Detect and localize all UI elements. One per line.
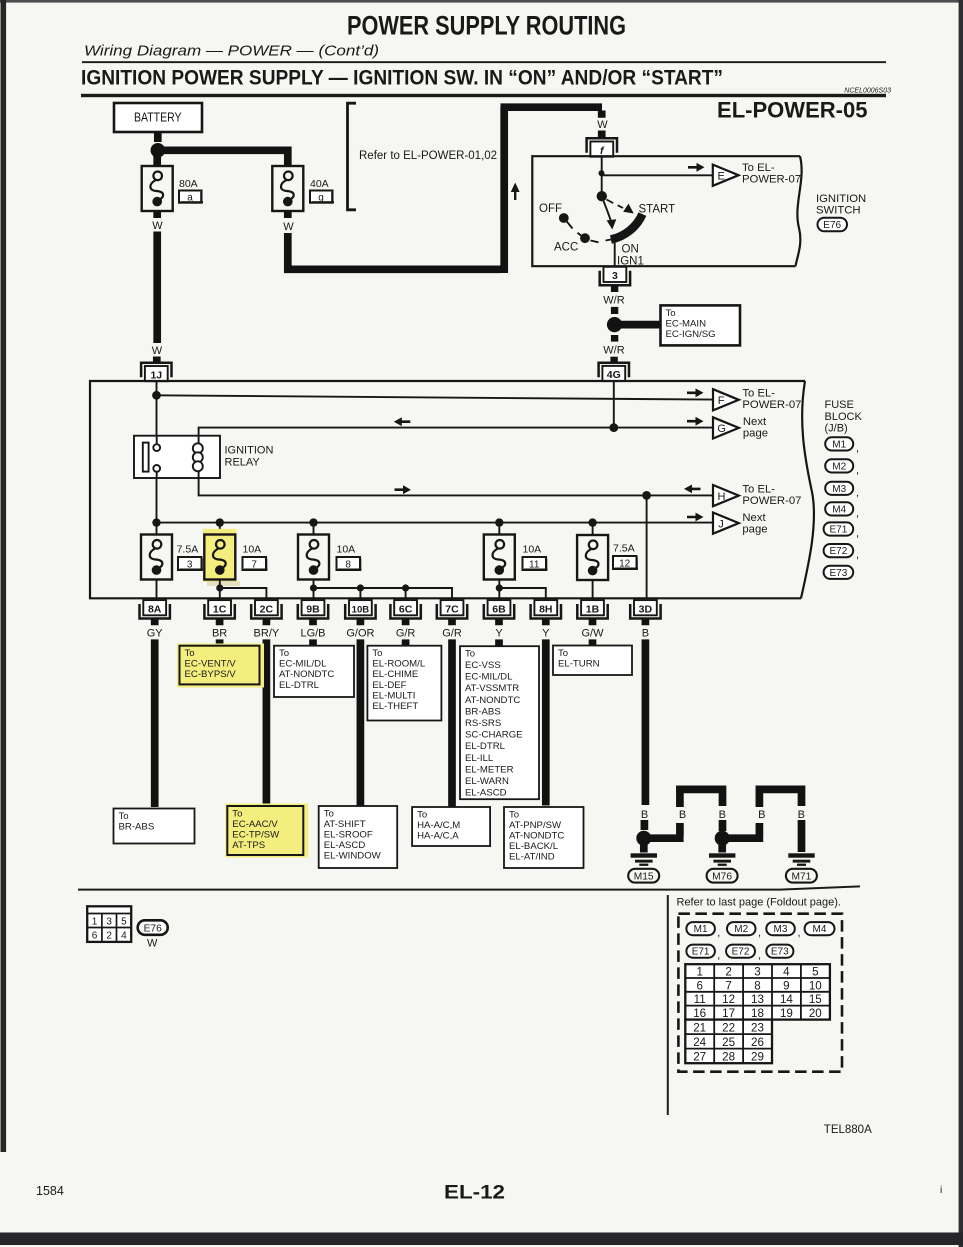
svg-text:page: page bbox=[743, 428, 768, 440]
svg-text:EC-MAIN: EC-MAIN bbox=[666, 318, 707, 329]
svg-text:POWER SUPPLY ROUTING: POWER SUPPLY ROUTING bbox=[347, 11, 626, 41]
wire fuse 3 to 8A bbox=[156, 580, 158, 601]
svg-text:1: 1 bbox=[92, 917, 98, 928]
svg-text:EL-12: EL-12 bbox=[444, 1183, 505, 1204]
connector f bbox=[587, 138, 617, 156]
svg-text:EC-IGN/SG: EC-IGN/SG bbox=[666, 329, 716, 340]
svg-text:7C: 7C bbox=[445, 603, 459, 615]
wire to fuse 7 bbox=[219, 523, 221, 535]
svg-text:80A: 80A bbox=[179, 178, 198, 190]
svg-text:1584: 1584 bbox=[36, 1184, 64, 1198]
wire to fuse 8 bbox=[313, 523, 315, 535]
To EC-MAIN EC-IGN/SG box bbox=[661, 305, 741, 345]
svg-text:G/W: G/W bbox=[582, 628, 605, 640]
svg-text:27: 27 bbox=[693, 1050, 706, 1063]
connector 6C bbox=[390, 600, 420, 618]
svg-text:W: W bbox=[152, 220, 163, 232]
svg-text:17: 17 bbox=[722, 1007, 735, 1020]
node fuse11 branch bbox=[496, 584, 503, 591]
wire G/OR 10B down bbox=[357, 639, 365, 806]
svg-text:AT-PNP/SW: AT-PNP/SW bbox=[509, 820, 562, 831]
svg-text:M3: M3 bbox=[832, 484, 846, 495]
svg-text:W: W bbox=[283, 221, 294, 233]
svg-text:F: F bbox=[718, 395, 725, 407]
svg-text:16: 16 bbox=[693, 1007, 706, 1020]
svg-text:RELAY: RELAY bbox=[225, 457, 261, 469]
ignition relay bbox=[134, 436, 220, 478]
svg-text:,: , bbox=[758, 927, 761, 939]
svg-text:M4: M4 bbox=[813, 924, 827, 935]
node fuse 8 top bbox=[309, 518, 317, 526]
svg-text:i: i bbox=[940, 1185, 942, 1196]
svg-text:2: 2 bbox=[106, 931, 112, 942]
switch pivot node bbox=[597, 191, 607, 201]
svg-text:To: To bbox=[279, 648, 289, 659]
svg-text:EL-POWER-05: EL-POWER-05 bbox=[717, 98, 868, 123]
node M76 junction bbox=[715, 831, 730, 846]
wire battery to fusible link g bbox=[162, 150, 288, 165]
wire bridge1 to M76 junction bbox=[719, 820, 727, 831]
svg-text:B: B bbox=[719, 809, 726, 821]
svg-text:W: W bbox=[597, 119, 608, 131]
ref oval E73 bbox=[824, 566, 854, 579]
To EC-AAC/V EC-TP/SW AT-TPS box (highlighted) bbox=[225, 804, 308, 858]
svg-text:IGNITION: IGNITION bbox=[225, 445, 274, 457]
svg-text:6: 6 bbox=[92, 931, 98, 942]
wire J line bbox=[157, 522, 713, 524]
svg-text:B: B bbox=[758, 809, 765, 821]
connector 4G bbox=[599, 363, 629, 381]
svg-text:2: 2 bbox=[725, 966, 731, 979]
svg-text:29: 29 bbox=[751, 1050, 764, 1063]
svg-text:M1: M1 bbox=[694, 924, 708, 935]
svg-text:E72: E72 bbox=[732, 947, 750, 958]
separator line under diagram bbox=[78, 886, 860, 889]
page ref triangle H bbox=[713, 485, 739, 506]
svg-text:E71: E71 bbox=[830, 525, 848, 536]
svg-text:7.5A: 7.5A bbox=[177, 544, 199, 556]
battery bbox=[114, 103, 202, 132]
up arrow on W wire bbox=[511, 183, 520, 201]
legend oval E72 bbox=[726, 945, 761, 962]
svg-text:Y: Y bbox=[542, 628, 550, 640]
OFF tick bbox=[567, 222, 573, 229]
ground M76 bbox=[718, 843, 726, 853]
arrow on J line right bbox=[687, 513, 704, 522]
node 4G on G line bbox=[609, 423, 618, 432]
svg-text:BATTERY: BATTERY bbox=[134, 111, 182, 125]
svg-text:W: W bbox=[147, 938, 158, 950]
svg-text:EC-TP/SW: EC-TP/SW bbox=[232, 830, 280, 841]
svg-text:HA-A/C,M: HA-A/C,M bbox=[417, 820, 460, 831]
svg-text:AT-VSSMTR: AT-VSSMTR bbox=[465, 683, 519, 694]
wire B to M15 junction bbox=[641, 820, 649, 830]
svg-text:EL-DTRL: EL-DTRL bbox=[465, 741, 506, 752]
terminal box 8 bbox=[337, 557, 362, 571]
svg-text:EL-SROOF: EL-SROOF bbox=[324, 830, 373, 841]
svg-text:,: , bbox=[856, 508, 859, 520]
svg-text:To: To bbox=[465, 648, 475, 659]
svg-text:SWITCH: SWITCH bbox=[816, 205, 861, 217]
wire stub under fusible link g bbox=[284, 212, 292, 219]
wire Y 8H down bbox=[542, 639, 550, 805]
svg-text:EL-BACK/L: EL-BACK/L bbox=[509, 841, 559, 852]
wire G/R 6C down bbox=[402, 639, 410, 646]
svg-text:BR-ABS: BR-ABS bbox=[119, 821, 155, 832]
page ref triangle E bbox=[713, 165, 739, 186]
wire BR 1C down bbox=[216, 639, 224, 646]
wire to E triangle bbox=[602, 174, 713, 176]
svg-text:40A: 40A bbox=[310, 178, 329, 190]
wire to fuse 11 bbox=[498, 523, 500, 535]
wire GY 8A down bbox=[151, 639, 159, 807]
svg-text:1C: 1C bbox=[213, 603, 227, 615]
svg-text:To EL-: To EL- bbox=[742, 162, 775, 174]
svg-text:6B: 6B bbox=[492, 603, 506, 615]
svg-text:G: G bbox=[717, 423, 726, 435]
position ACC bbox=[580, 233, 590, 243]
svg-text:10A: 10A bbox=[523, 544, 542, 556]
svg-text:,: , bbox=[717, 950, 720, 962]
svg-text:G/R: G/R bbox=[442, 628, 462, 640]
wire G/W 1B down bbox=[589, 639, 597, 646]
svg-text:M4: M4 bbox=[832, 505, 846, 516]
svg-text:POWER-07: POWER-07 bbox=[742, 495, 801, 507]
svg-text:19: 19 bbox=[780, 1007, 793, 1020]
svg-text:RS-SRS: RS-SRS bbox=[465, 718, 501, 729]
svg-text:IGNITION: IGNITION bbox=[816, 193, 866, 205]
svg-text:POWER-07: POWER-07 bbox=[742, 399, 801, 411]
arrow on G line mid bbox=[394, 417, 411, 426]
fuse 11 10A bbox=[484, 535, 515, 580]
svg-text:1B: 1B bbox=[586, 603, 600, 615]
svg-text:EL-WINDOW: EL-WINDOW bbox=[324, 851, 382, 862]
oval E76 bottom bbox=[138, 920, 168, 935]
svg-text:M15: M15 bbox=[634, 871, 654, 882]
svg-text:To: To bbox=[558, 648, 568, 659]
svg-text:BR: BR bbox=[212, 628, 227, 640]
svg-text:11: 11 bbox=[529, 560, 540, 571]
connector 7C bbox=[437, 600, 467, 618]
wire stub above 1J bbox=[153, 357, 161, 365]
page ref triangle F bbox=[713, 389, 739, 410]
connector 10B bbox=[345, 600, 375, 618]
svg-text:NCEL0006S03: NCEL0006S03 bbox=[844, 88, 891, 95]
svg-text:To: To bbox=[185, 648, 195, 659]
svg-text:GY: GY bbox=[147, 628, 164, 640]
wire 4G drop bbox=[613, 382, 615, 428]
svg-text:22: 22 bbox=[722, 1021, 735, 1034]
svg-text:AT-NONDTC: AT-NONDTC bbox=[279, 669, 334, 680]
connector 1J bbox=[141, 363, 171, 381]
To EL-TURN box bbox=[553, 646, 632, 676]
svg-text:14: 14 bbox=[780, 993, 793, 1006]
fuse 7 10A bbox=[204, 535, 235, 580]
svg-text:Refer to EL-POWER-01,02: Refer to EL-POWER-01,02 bbox=[359, 150, 497, 162]
svg-text:10A: 10A bbox=[243, 544, 262, 556]
To EC-VSS list box bbox=[460, 646, 539, 799]
svg-text:EL-THEFT: EL-THEFT bbox=[372, 701, 418, 712]
wire to fuse 12 bbox=[592, 523, 594, 535]
terminal box a bbox=[179, 191, 203, 204]
svg-text:4G: 4G bbox=[607, 369, 621, 381]
To AT-PNP/SW AT-NONDTC EL-BACK/L EL-AT/IND box bbox=[504, 807, 584, 868]
wire coil to G line bbox=[199, 428, 713, 436]
wire branch to EC-MAIN box bbox=[619, 321, 660, 329]
svg-text:EL-ASCD: EL-ASCD bbox=[324, 840, 366, 851]
To HA-A/C,M HA-A/C,A box bbox=[412, 807, 490, 846]
node fuse 7 top bbox=[216, 518, 224, 526]
svg-text:15: 15 bbox=[809, 993, 822, 1006]
connector 3D bbox=[630, 600, 660, 618]
ref oval M2 bbox=[825, 459, 859, 476]
svg-text:OFF: OFF bbox=[539, 203, 562, 215]
svg-text:ACC: ACC bbox=[554, 242, 578, 254]
svg-text:23: 23 bbox=[751, 1021, 764, 1034]
svg-text:7: 7 bbox=[725, 979, 731, 992]
To AT-SHIFT EL-SROOF EL-ASCD EL-WINDOW box bbox=[319, 806, 398, 868]
svg-text:H: H bbox=[718, 491, 726, 503]
svg-text:START: START bbox=[639, 204, 676, 216]
svg-text:EL-TURN: EL-TURN bbox=[558, 658, 600, 669]
fuse block J/B box bbox=[90, 381, 814, 598]
svg-text:EC-MIL/DL: EC-MIL/DL bbox=[279, 659, 327, 670]
svg-text:AT-NONDTC: AT-NONDTC bbox=[465, 695, 520, 706]
svg-text:EC-MIL/DL: EC-MIL/DL bbox=[465, 672, 513, 683]
svg-text:,: , bbox=[758, 950, 761, 962]
wire 1J feed bbox=[156, 381, 158, 435]
svg-text:8H: 8H bbox=[539, 603, 552, 615]
legend oval M4 bbox=[805, 922, 835, 935]
svg-text:3: 3 bbox=[754, 966, 760, 979]
svg-text:To: To bbox=[417, 809, 427, 820]
wire battery down to fusible link a bbox=[153, 156, 161, 165]
fusible link g 40A bbox=[272, 166, 303, 211]
svg-text:W/R: W/R bbox=[603, 345, 624, 357]
arrow on H line left-pointing bbox=[684, 485, 701, 494]
svg-text:9: 9 bbox=[783, 979, 789, 992]
ground M71 bbox=[788, 853, 814, 866]
ground oval M76 bbox=[707, 869, 738, 883]
svg-text:To EL-: To EL- bbox=[742, 387, 775, 399]
bracket refer note bbox=[348, 103, 357, 210]
svg-text:Next: Next bbox=[742, 512, 766, 524]
ref oval E71 bbox=[824, 522, 859, 539]
terminal box 11 bbox=[523, 557, 548, 571]
svg-text:3: 3 bbox=[187, 560, 193, 571]
svg-text:Refer to last page (Foldout pa: Refer to last page (Foldout page). bbox=[677, 897, 841, 909]
svg-text:20: 20 bbox=[809, 1007, 822, 1020]
svg-text:IGNITION POWER SUPPLY — IGNITI: IGNITION POWER SUPPLY — IGNITION SW. IN … bbox=[81, 67, 723, 90]
wire stub into connector f bbox=[598, 131, 606, 140]
scan border frame (decorative) bbox=[0, 0, 963, 3]
wire IGN1 output bbox=[614, 242, 616, 267]
svg-text:E71: E71 bbox=[692, 947, 710, 958]
svg-text:SC-CHARGE: SC-CHARGE bbox=[465, 730, 523, 741]
svg-text:BR/Y: BR/Y bbox=[254, 628, 280, 640]
node F branch bbox=[152, 391, 161, 400]
legend oval E73 bbox=[766, 945, 793, 958]
svg-text:EL-ROOM/L: EL-ROOM/L bbox=[372, 659, 425, 670]
legend oval M2 bbox=[727, 922, 761, 939]
ref oval M4 bbox=[825, 502, 859, 519]
svg-text:To: To bbox=[372, 648, 382, 659]
rotation arc bbox=[611, 214, 643, 239]
legend oval M1 bbox=[686, 922, 720, 939]
svg-text:E73: E73 bbox=[830, 568, 848, 579]
svg-text:7: 7 bbox=[251, 560, 257, 571]
To EL-ROOM/L EL-CHIME EL-DEF EL-MULTI EL-THEFT box bbox=[367, 646, 441, 721]
wire switch input bbox=[601, 156, 603, 195]
To BR-ABS box bbox=[114, 809, 195, 844]
svg-text:M2: M2 bbox=[734, 924, 748, 935]
svg-text:6C: 6C bbox=[399, 603, 413, 615]
ref oval M3 bbox=[825, 482, 859, 499]
svg-text:EL-WARN: EL-WARN bbox=[465, 776, 509, 787]
svg-text:,: , bbox=[856, 528, 859, 540]
svg-text:EL-ILL: EL-ILL bbox=[465, 753, 494, 764]
svg-text:8: 8 bbox=[345, 560, 351, 571]
svg-text:G/R: G/R bbox=[396, 628, 416, 640]
terminal box 12 bbox=[613, 556, 638, 570]
svg-text:EL-ASCD: EL-ASCD bbox=[465, 788, 507, 799]
svg-text:EL-MULTI: EL-MULTI bbox=[372, 690, 415, 701]
wire F line bbox=[157, 395, 713, 399]
svg-text:To EL-: To EL- bbox=[742, 484, 775, 496]
terminal box 3 bbox=[178, 557, 203, 571]
legend section divider bbox=[667, 895, 669, 1115]
ref oval E72 bbox=[824, 544, 859, 561]
node fuse 11 top bbox=[495, 518, 503, 526]
svg-text:5: 5 bbox=[121, 917, 127, 928]
connector 9B bbox=[298, 600, 328, 618]
ref oval M1 bbox=[825, 437, 859, 454]
svg-text:To: To bbox=[666, 308, 676, 319]
node fuse7 branch bbox=[216, 584, 223, 591]
svg-text:1: 1 bbox=[696, 966, 702, 979]
wire LG/B 9B down bbox=[309, 639, 317, 646]
wire B 3D down bbox=[642, 639, 650, 805]
svg-text:M2: M2 bbox=[832, 462, 846, 473]
node 3D branch on H line bbox=[642, 491, 651, 500]
wire fuse 8 to 9B with branches bbox=[314, 580, 453, 601]
svg-text:To: To bbox=[324, 808, 334, 819]
svg-text:EL-AT/IND: EL-AT/IND bbox=[509, 852, 555, 863]
svg-text:,: , bbox=[798, 927, 801, 939]
svg-text:page: page bbox=[742, 524, 767, 536]
node fuse8 branch bbox=[310, 584, 317, 591]
svg-text:3: 3 bbox=[612, 270, 618, 282]
wire contact to J line and fuse 3 bbox=[156, 478, 158, 535]
svg-text:B: B bbox=[798, 809, 805, 821]
To EC-MIL/DL AT-NONDTC EL-DTRL box bbox=[274, 646, 354, 697]
svg-text:(J/B): (J/B) bbox=[825, 423, 848, 435]
svg-text:E: E bbox=[718, 171, 725, 183]
ground M15 bbox=[640, 843, 648, 853]
wire M15 to bridge 1 bbox=[648, 823, 684, 838]
svg-text:a: a bbox=[187, 193, 193, 204]
svg-text:IGN1: IGN1 bbox=[617, 256, 644, 268]
svg-text:BR-ABS: BR-ABS bbox=[465, 706, 501, 717]
ignition switch E76 box bbox=[532, 156, 801, 266]
svg-text:,: , bbox=[856, 443, 859, 455]
svg-text:4: 4 bbox=[121, 931, 127, 942]
node fuse 3 top bbox=[152, 518, 160, 526]
wire coil to H line bbox=[199, 478, 713, 495]
svg-text:EL-DTRL: EL-DTRL bbox=[279, 680, 320, 691]
node E branch bbox=[599, 170, 605, 176]
svg-text:EL-METER: EL-METER bbox=[465, 764, 514, 775]
svg-text:7.5A: 7.5A bbox=[613, 543, 635, 555]
svg-text:5: 5 bbox=[812, 966, 818, 979]
svg-text:To: To bbox=[119, 811, 129, 822]
node EC-MAIN branch bbox=[607, 317, 622, 332]
svg-text:B: B bbox=[679, 809, 686, 821]
svg-text:BLOCK: BLOCK bbox=[825, 411, 863, 423]
wire Y 6B down bbox=[495, 639, 503, 646]
connector 8A bbox=[140, 600, 170, 618]
svg-text:AT-SHIFT: AT-SHIFT bbox=[324, 819, 366, 830]
svg-text:24: 24 bbox=[693, 1036, 706, 1049]
To EC-VENT/V EC-BYPS/V box (highlighted) bbox=[177, 644, 264, 688]
connector 2C bbox=[251, 600, 281, 618]
svg-text:EL-CHIME: EL-CHIME bbox=[372, 669, 418, 680]
svg-text:6: 6 bbox=[696, 979, 702, 992]
svg-text:POWER-07: POWER-07 bbox=[742, 174, 801, 186]
wire bridge2 to M71 ground bbox=[798, 820, 806, 852]
svg-text:J: J bbox=[718, 518, 724, 530]
svg-text:TEL880A: TEL880A bbox=[824, 1124, 872, 1136]
svg-text:,: , bbox=[856, 549, 859, 561]
svg-text:AT-NONDTC: AT-NONDTC bbox=[509, 831, 564, 842]
svg-text:To: To bbox=[509, 809, 519, 820]
svg-text:LG/B: LG/B bbox=[300, 628, 325, 640]
wire M76 to bridge 2 bbox=[727, 823, 764, 838]
wire G/R 7C down bbox=[448, 639, 456, 806]
svg-text:12: 12 bbox=[619, 559, 631, 570]
node fuse 12 top bbox=[588, 518, 596, 526]
wire fuse 11 to 6B and 8H branch bbox=[499, 580, 546, 601]
terminal box 7 bbox=[243, 557, 268, 571]
svg-text:ON: ON bbox=[622, 244, 639, 256]
svg-text:3D: 3D bbox=[639, 603, 653, 615]
svg-text:To: To bbox=[232, 808, 242, 819]
svg-text:E76: E76 bbox=[823, 220, 841, 231]
wire 3D drop bbox=[646, 495, 648, 599]
svg-text:25: 25 bbox=[722, 1036, 735, 1049]
svg-text:8: 8 bbox=[754, 979, 760, 992]
switch arm solid arrow to ON bbox=[604, 201, 612, 223]
legend dashed box bbox=[678, 914, 842, 1072]
svg-text:10: 10 bbox=[809, 979, 822, 992]
connector 1C bbox=[204, 600, 234, 618]
switch dashed arrow to START bbox=[607, 200, 624, 209]
svg-text:EC-VENT/V: EC-VENT/V bbox=[185, 659, 237, 670]
svg-text:26: 26 bbox=[751, 1036, 764, 1049]
connector 1B bbox=[577, 600, 607, 618]
svg-text:E73: E73 bbox=[771, 947, 789, 958]
wire stub under connector 3 bbox=[611, 286, 618, 292]
terminal box g bbox=[310, 191, 334, 204]
svg-text:3: 3 bbox=[106, 917, 112, 928]
fuse 8 10A bbox=[298, 535, 329, 580]
connector 3 bbox=[600, 267, 630, 285]
wire fuse 12 to 1B bbox=[592, 580, 594, 600]
svg-text:EC-VSS: EC-VSS bbox=[465, 660, 501, 671]
svg-text:10A: 10A bbox=[337, 544, 356, 556]
svg-text:9B: 9B bbox=[306, 603, 320, 615]
wire BR/Y 2C down bbox=[263, 639, 271, 807]
